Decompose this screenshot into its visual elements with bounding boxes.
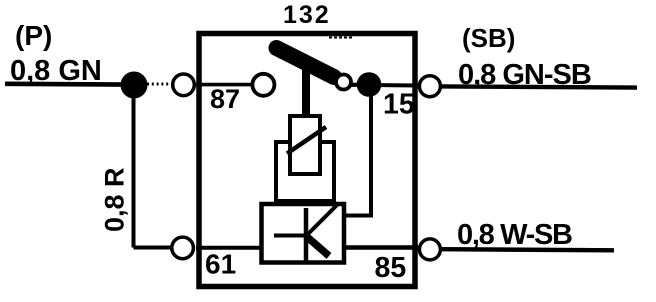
wire 0,8 R vertical from junction	[134, 85, 172, 248]
transistor base lead	[274, 234, 306, 238]
wire label 0,8 GN-SB	[458, 59, 591, 91]
wire from dot 15 down to electronics box	[346, 96, 373, 216]
pin label 85	[375, 252, 407, 284]
pin label 15	[383, 89, 415, 121]
node (SB) label	[462, 23, 515, 53]
wire 0,8 W-SB outgoing	[442, 249, 614, 250]
armature pivot circle	[336, 75, 351, 90]
label 132	[283, 1, 331, 29]
relay box 132 outline	[199, 34, 415, 287]
actuating link wire from armature to coil	[302, 64, 310, 117]
svg-text:0,8 R: 0,8 R	[100, 167, 130, 232]
svg-text:(P): (P)	[15, 20, 52, 51]
connector circle at pin 61 (box edge)	[172, 237, 194, 259]
wire scan tick under top edge	[329, 37, 353, 39]
wire 0,8 GN-SB outgoing	[442, 86, 637, 87]
wire from dot 15 to connector	[369, 83, 418, 88]
wire nub from pivot to dot 15	[350, 83, 361, 87]
connector circle at pin 85 (box edge)	[419, 239, 440, 260]
relay coil outer rectangle	[276, 142, 334, 201]
wire label 0,8 W-SB	[457, 219, 572, 251]
relay coil inner rectangle	[290, 116, 320, 174]
transistor base bar	[304, 208, 309, 261]
junction dot at P splice	[121, 72, 148, 99]
svg-text:15: 15	[383, 89, 415, 121]
coil diagonal stroke	[287, 127, 326, 154]
svg-text:87: 87	[210, 84, 240, 114]
transistor emitter stroke	[306, 236, 329, 256]
wire from connector into contact 87	[196, 83, 252, 87]
svg-text:61: 61	[205, 249, 236, 280]
connector circle at pin 15 (box edge)	[419, 76, 440, 97]
wire from connector 61 to electronics box	[196, 246, 261, 250]
electronics box (transistor)	[262, 204, 345, 263]
svg-text:132: 132	[283, 1, 331, 29]
svg-text:85: 85	[375, 252, 407, 284]
transistor collector stroke	[306, 205, 337, 236]
svg-text:0,8 GN-SB: 0,8 GN-SB	[458, 59, 591, 91]
relay armature bar	[277, 48, 335, 77]
svg-text:(SB): (SB)	[462, 23, 515, 53]
node (P) label	[15, 20, 52, 51]
wire 0,8 GN incoming	[5, 82, 134, 87]
wire dotted from junction to connector 87	[147, 83, 172, 86]
wire label 0,8 R (rotated)	[100, 167, 130, 232]
svg-text:0,8 GN: 0,8 GN	[10, 55, 102, 87]
wire from electronics box to connector 85	[346, 245, 418, 249]
pin label 87	[210, 84, 240, 114]
pin label 61	[205, 249, 236, 280]
wire label 0,8 GN	[10, 55, 102, 87]
svg-text:0,8 W-SB: 0,8 W-SB	[457, 219, 572, 251]
contact circle 87 inside box	[252, 74, 274, 96]
junction dot at pin 15	[357, 72, 382, 97]
connector circle at pin 87 (outside box)	[173, 74, 195, 96]
